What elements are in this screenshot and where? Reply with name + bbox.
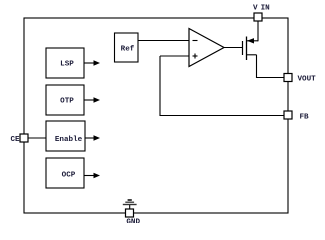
block OCP bbox=[46, 158, 84, 188]
transistor Q1 (PMOS pass device) bbox=[243, 37, 259, 61]
svg-text:OTP: OTP bbox=[60, 98, 74, 106]
wire Ref output to op-amp inverting input bbox=[138, 40, 189, 42]
svg-text:LSP: LSP bbox=[60, 61, 74, 69]
wire Enable output arrow bbox=[85, 135, 100, 141]
pin FB bbox=[284, 111, 292, 119]
svg-text:FB: FB bbox=[300, 113, 310, 121]
svg-text:Ref: Ref bbox=[121, 46, 135, 54]
wire op-amp non-inverting input bbox=[160, 55, 189, 57]
block LSP bbox=[46, 48, 84, 78]
svg-text:GND: GND bbox=[126, 219, 140, 224]
pin CE bbox=[20, 134, 28, 142]
wire op-amp output to transistor gate bbox=[224, 47, 243, 49]
wire OCP output arrow bbox=[84, 173, 100, 179]
pin VIN bbox=[254, 13, 262, 21]
ground symbol above GND pin bbox=[123, 200, 137, 209]
op-amp U1 (error amplifier) bbox=[189, 29, 224, 67]
pin VOUT bbox=[284, 74, 292, 82]
wire VIN pin down to transistor source bbox=[257, 21, 259, 41]
svg-text:CE: CE bbox=[11, 136, 21, 144]
svg-text:VOUT: VOUT bbox=[298, 75, 317, 83]
wire OTP output arrow bbox=[84, 97, 100, 103]
block Ref (voltage reference) bbox=[115, 33, 139, 62]
block OTP bbox=[46, 85, 84, 115]
svg-text:OCP: OCP bbox=[62, 172, 76, 180]
wire CE pin to Enable block bbox=[28, 137, 46, 139]
svg-text:IN: IN bbox=[261, 5, 271, 13]
wire feedback: FB pin to op-amp non-inverting input bbox=[160, 56, 284, 116]
svg-text:Enable: Enable bbox=[55, 136, 83, 144]
block Enable bbox=[46, 121, 85, 151]
wire transistor drain down and right to VOUT pin bbox=[257, 55, 285, 78]
svg-text:V: V bbox=[253, 5, 258, 13]
pin GND bbox=[126, 209, 134, 217]
outer boundary rectangle bbox=[24, 18, 288, 213]
wire LSP output arrow bbox=[84, 60, 100, 66]
